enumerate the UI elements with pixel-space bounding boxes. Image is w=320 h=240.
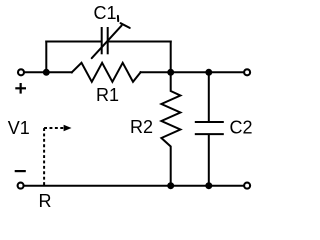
node C2 top junction [205, 69, 212, 76]
wire left vertical to C1 loop [45, 42, 47, 73]
terminal top-right [244, 69, 250, 75]
wire vertical right of C1 loop [170, 42, 172, 73]
wire dashed measurement line vertical [43, 128, 45, 185]
terminal bottom-right [244, 183, 250, 189]
arrowhead of dashed arrow [64, 125, 72, 132]
svg-text:R2: R2 [130, 117, 153, 137]
plus sign [16, 84, 25, 92]
node R2 bottom junction [167, 182, 174, 189]
wire bottom rail [24, 185, 245, 187]
terminal top-left [18, 69, 24, 75]
wire top rail right [141, 71, 245, 73]
capacitor C1 plates [102, 28, 108, 53]
resistor R2 [161, 72, 180, 185]
resistor R1 [72, 63, 141, 82]
node R2 top junction [167, 69, 174, 76]
svg-text:R: R [39, 191, 52, 211]
svg-text:C1: C1 [93, 3, 116, 23]
capacitor C1 variable arrow [92, 16, 130, 58]
capacitor C2 [196, 72, 223, 185]
wire dashed measurement line horizontal [44, 127, 64, 129]
node left junction [43, 69, 50, 76]
minus sign [16, 170, 25, 172]
svg-text:R1: R1 [96, 85, 119, 105]
wire top loop left segment [46, 41, 101, 43]
wire top rail left [24, 71, 72, 73]
wire top loop right segment [109, 41, 171, 43]
svg-text:C2: C2 [229, 118, 252, 138]
node C2 bottom junction [205, 182, 212, 189]
svg-text:V1: V1 [8, 118, 30, 138]
terminal bottom-left [18, 183, 24, 189]
